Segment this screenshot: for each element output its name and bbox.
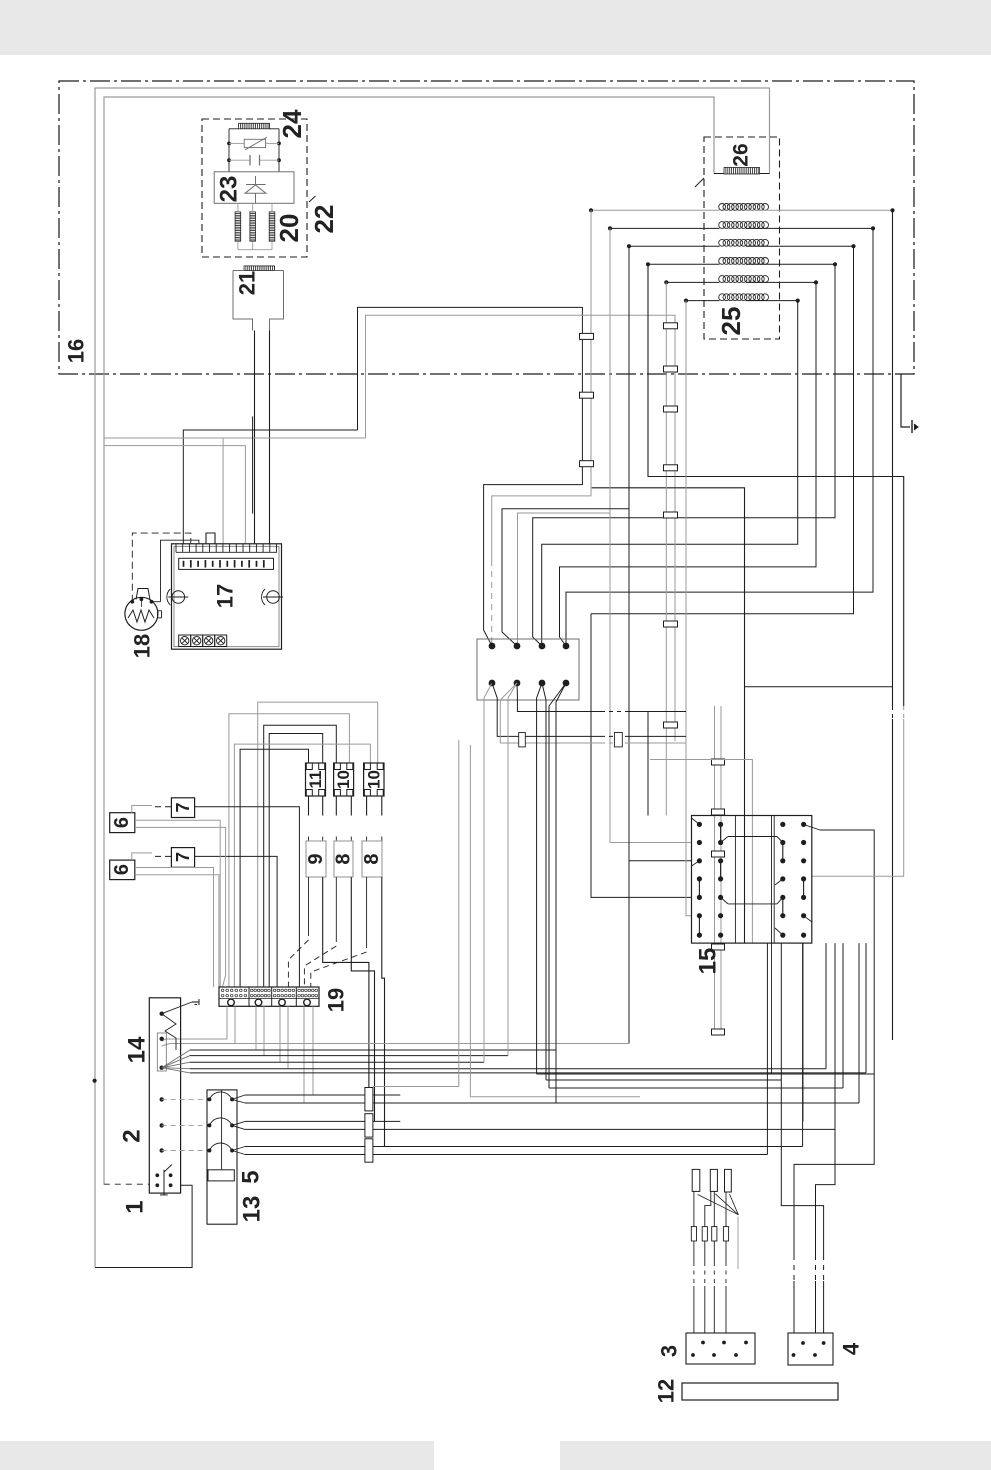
label 23 (216, 176, 243, 203)
label 6a (111, 817, 133, 828)
flame sensor 18 (125, 589, 162, 631)
label 13 (239, 1196, 266, 1223)
wire: x=591 lower feed into relay (591, 614, 692, 898)
label 5 (238, 1170, 265, 1183)
ground spur at top right (901, 374, 918, 433)
wire: short stub x=252.6 (252, 416, 254, 513)
label 18 (130, 634, 155, 658)
label 2 (119, 1129, 146, 1142)
mounting screws of 17 (167, 589, 283, 605)
label 11 (306, 771, 325, 789)
label 25 (716, 307, 746, 336)
label 8a (333, 853, 355, 864)
label 3 (657, 1345, 682, 1357)
wire: bottom loop from switch 1 (95, 1185, 192, 1267)
switch 7b (155, 848, 277, 987)
svg-text:16: 16 (64, 339, 89, 363)
label 16 (64, 339, 89, 363)
boundary box 16 (dash-dot appliance outline) (59, 81, 914, 374)
motor windings 20 (three coils) (235, 203, 275, 249)
wire: right drop x=853.5 stair to x=591 (591, 246, 854, 614)
svg-text:9: 9 (305, 853, 327, 864)
relay/contact block 15 (692, 816, 821, 1075)
label 4 (839, 1342, 864, 1355)
label 14 (124, 1036, 151, 1063)
interconnect block (8 contacts) (477, 639, 579, 700)
label 8b (361, 853, 383, 864)
wire: right drop x=816 stair to contact 4 diag (560, 282, 817, 646)
connector 3 (686, 1333, 755, 1364)
svg-text:8: 8 (333, 853, 355, 864)
svg-text:11: 11 (306, 771, 325, 789)
label 9 (305, 853, 327, 864)
door switch 1 (104, 1165, 173, 1196)
terminal screws of 17 (bottom row) (179, 635, 227, 647)
lamp 6a (110, 806, 226, 988)
pin comb of 17 (176, 544, 277, 553)
label 6b (111, 864, 133, 875)
ignition coil 21 (233, 266, 284, 331)
earth busbar 12 (682, 1383, 838, 1400)
svg-text:3: 3 (657, 1345, 682, 1357)
wire: coil3 drop stair T to contact 2 diag (502, 246, 692, 1043)
notch on top of 17 (206, 533, 215, 544)
thermostat 11 (306, 763, 326, 796)
control unit 17 housing (172, 544, 282, 649)
svg-text:5: 5 (238, 1170, 265, 1183)
switch contacts of 13 (three poles) (207, 1092, 234, 1153)
svg-text:2: 2 (119, 1129, 146, 1142)
label 7b (173, 852, 193, 862)
wire: mid link pair upper with stair to contact 1 (358, 307, 583, 646)
fuse holders above connector 3 (692, 1169, 738, 1214)
wire: right drop x=797.7 stair to contact 3 (542, 301, 798, 646)
coil 24 (winding) with parallel resistor and capacitor (227, 123, 281, 172)
fuse 5 (208, 1170, 234, 1181)
svg-text:12: 12 (654, 1379, 679, 1403)
wire: coil4 drop long link y=476.5 (648, 264, 904, 876)
label 26 (730, 143, 753, 166)
wire: coil2 drop stair T to contact 2 (518, 228, 692, 842)
label 19 (324, 988, 349, 1012)
connector marks on vertical pair x=582-591 (580, 333, 594, 466)
svg-text:23: 23 (216, 176, 243, 203)
wires: sensor 18 leads (132, 533, 199, 602)
svg-text:25: 25 (716, 307, 746, 336)
label 17 (213, 584, 238, 608)
connector ladder pair x=714-721 (712, 706, 725, 1035)
wire: horizontal y=445.6 from left bus (104, 446, 245, 544)
svg-text:24: 24 (277, 109, 307, 138)
svg-text:4: 4 (839, 1342, 864, 1355)
thermostat 10a (334, 763, 354, 796)
thermostat 10b (364, 763, 384, 796)
wires: 21 leads down to control box 17 (255, 331, 270, 544)
wire: horizontal y=430 into box 17 (183, 430, 357, 544)
label 21 (235, 271, 260, 295)
dashed enclosure 22 (motor run group) (202, 119, 316, 257)
label 15 (695, 948, 722, 975)
wire: relay stub x=803 to run (802, 943, 804, 1121)
wire: right drop x=835 stair to contact 3 diag (533, 264, 835, 646)
wire: stair y=487.8 to relay crossing (592, 488, 745, 943)
connector marks on vertical pair x=666-675 (664, 282, 678, 815)
svg-text:21: 21 (235, 271, 260, 295)
svg-text:10: 10 (364, 770, 383, 789)
svg-text:19: 19 (324, 988, 349, 1012)
element 9 (306, 841, 326, 877)
svg-text:10: 10 (334, 770, 353, 789)
inline fuses (4) (691, 1191, 728, 1333)
wires: coil 25 right leads with junction dots (746, 208, 895, 303)
svg-text:13: 13 (239, 1196, 266, 1223)
wire: inner supply run (left bus x=104 top run to coil 26) (104, 97, 714, 1184)
label 12 (654, 1379, 679, 1403)
wire: stair y=686.7 link (745, 686, 893, 688)
coil 26 (solenoid) (714, 168, 770, 175)
label 24 (277, 109, 307, 138)
wire bundle: strip 19 to thermostats 11/10/10 (229, 702, 378, 987)
switch assembly housing (components 14,2,1) (149, 998, 180, 1193)
connector marks on horizontal run pairs (365, 1088, 373, 1163)
svg-text:20: 20 (274, 214, 304, 243)
label 22 (309, 205, 339, 234)
wire runs: lower distribution bundle (190, 943, 874, 1154)
svg-text:1: 1 (122, 1200, 149, 1213)
svg-text:7: 7 (173, 802, 193, 812)
wire: mid link pair lower (366, 315, 676, 741)
wires: mid verticals into run connectors (373, 740, 640, 1097)
terminal strip 19 (219, 987, 319, 1006)
connector 4 (788, 1333, 833, 1365)
svg-text:8: 8 (361, 853, 383, 864)
junction dot on left bus (93, 1079, 97, 1083)
wires: 13 contacts to the right (pairs) (232, 1095, 245, 1155)
wire: right drop x=873 stair to contact 4 of block (566, 228, 873, 646)
svg-text:17: 17 (213, 584, 238, 608)
wire: horizontal y=438 from left bus (104, 437, 366, 439)
wire: outer supply run (left bus x=95 top run to coil 26) (95, 88, 770, 1268)
svg-text:22: 22 (309, 205, 339, 234)
element 8b (362, 841, 382, 877)
wire: gray lead to connector 3 (737, 1217, 739, 1269)
selector contacts 14 (157, 999, 199, 1073)
multi-switch 13 housing (207, 1090, 237, 1224)
wires: 9/8/8 down with jogs into strip 19 and stairs (288, 877, 384, 1147)
label 10a (334, 770, 353, 789)
wire: coil6 drop feed into relay (686, 301, 692, 916)
wires: stair drops to connector 4 (781, 830, 874, 1333)
wires: fan below bottom contacts of block (484, 683, 752, 1103)
svg-text:14: 14 (124, 1036, 151, 1063)
svg-text:6: 6 (111, 864, 133, 875)
label 20 (274, 214, 304, 243)
label 10b (364, 770, 383, 789)
svg-text:6: 6 (111, 817, 133, 828)
connector marks on fan wire pair (519, 733, 623, 747)
element 8a (334, 841, 353, 877)
svg-text:7: 7 (173, 852, 193, 862)
oven selector contacts 2 (160, 1097, 210, 1153)
switch 7a (155, 798, 299, 987)
heater coils 25 (six windings) (719, 204, 769, 301)
label 7a (173, 802, 193, 812)
label 1 (122, 1200, 149, 1213)
diode module 23 (214, 172, 294, 204)
svg-text:26: 26 (730, 143, 753, 166)
wires: 11/10/10 to 9/8/8 (309, 796, 382, 841)
connector row (dip) of 17 (179, 558, 274, 569)
wire: vertical to box17 x=223 (222, 438, 224, 544)
wires: coil 25 left leads with junction dots (589, 208, 720, 303)
dashed enclosure for 25 and 26 (695, 137, 780, 339)
wire: coil1 drop x=591 stair to contact 1 (492, 210, 591, 646)
wire: right drop x=892.5 to lower region (892, 210, 894, 1040)
svg-text:15: 15 (695, 948, 722, 975)
svg-text:18: 18 (130, 634, 155, 658)
lamp 6b (110, 853, 219, 987)
wires: strip 19 lower leads (162, 1006, 629, 1103)
